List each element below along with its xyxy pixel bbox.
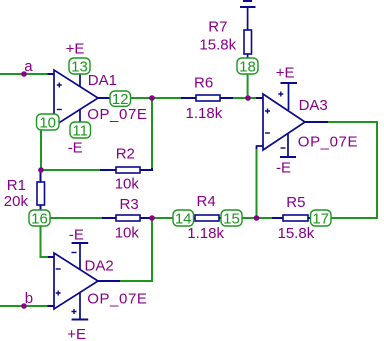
wire green R6 to DA3 + input (233, 97, 256, 99)
label DA1 (88, 72, 117, 89)
wire green from box 16 down to DA2 - input (41, 224, 49, 257)
node box 14 (173, 210, 194, 228)
node b junction dot (21, 303, 27, 309)
power +E bar above DA3 (278, 83, 297, 110)
op-amp DA3 - input stub (257, 146, 264, 149)
svg-text:+E: +E (276, 65, 295, 82)
resistor R4 body (195, 215, 219, 221)
wire green box 18 down to node (247, 71, 249, 98)
wire green vertical from box 10 down to R1 node (40, 128, 42, 170)
node box 13 (69, 58, 90, 76)
op-amp DA1 pin 11 supply lead (79, 110, 81, 124)
label 10k of R3 (115, 225, 140, 242)
resistor R2 left lead blue (100, 169, 116, 171)
node b label (25, 290, 33, 307)
svg-text:-E: -E (276, 160, 291, 177)
op-amp DA1 pin 13 supply lead (79, 70, 81, 87)
node box 12 (110, 91, 131, 108)
label 1.18k of R6 (186, 105, 223, 122)
op-amp U3 DA3 triangle (263, 94, 305, 150)
svg-text:+E: +E (67, 326, 86, 341)
resistor R1 bottom lead blue (40, 205, 42, 212)
resistor R2 right lead blue (140, 168, 152, 170)
label R1 (7, 177, 26, 194)
svg-text:18: 18 (239, 59, 256, 76)
resistor R5 left lead blue (272, 217, 283, 219)
wire a blue lead into DA1 + input (48, 73, 55, 75)
resistor R6 body (196, 95, 220, 101)
label OP_07E of DA3 (298, 133, 358, 150)
svg-text:OP_07E: OP_07E (87, 106, 147, 123)
label 15.8k of R7 (199, 37, 236, 54)
junction dot DA1 output node (149, 95, 155, 101)
label +E below DA2 (67, 326, 86, 341)
svg-text:R5: R5 (286, 194, 305, 211)
wire green box 15 to R5 node (240, 217, 272, 219)
wire green node to box 14 (152, 217, 175, 219)
svg-text:14: 14 (175, 211, 192, 228)
resistor R7 bottom lead blue (247, 54, 249, 60)
svg-text:R1: R1 (7, 177, 26, 194)
node box 15 (221, 210, 242, 228)
power -E bar below DA3 (280, 134, 296, 157)
node box 17 (311, 210, 332, 228)
svg-text:R3: R3 (120, 196, 139, 213)
label 1.18k of R4 (187, 225, 224, 242)
wire blue lead into DA3 + input (256, 97, 263, 99)
svg-text:R4: R4 (197, 193, 216, 210)
resistor R5 body (283, 215, 308, 221)
label DA2 (85, 258, 114, 275)
svg-text:10k: 10k (115, 225, 140, 242)
wire green from box 16 right to R3 (48, 217, 102, 219)
label OP_07E of DA1 (87, 106, 147, 123)
op-amp DA1 - input marker (57, 109, 62, 111)
node box 18 (237, 58, 258, 76)
label -E below DA3 (276, 160, 291, 177)
junction dot R1/R2 node (38, 167, 44, 173)
svg-text:DA1: DA1 (88, 72, 117, 89)
power -E bar above DA2 (72, 243, 89, 270)
op-amp DA1 - input stub (hidden under box 10) (47, 121, 54, 123)
label OP_07E of DA2 (87, 291, 147, 308)
svg-text:OP_07E: OP_07E (298, 133, 358, 150)
svg-text:15.8k: 15.8k (278, 225, 315, 242)
svg-text:-E: -E (69, 227, 84, 244)
wire blue lead into DA2 - input (48, 256, 54, 258)
resistor R7 body (244, 30, 252, 54)
resistor R6 right lead blue (220, 97, 233, 99)
wire b blue lead into DA2 + input (48, 305, 55, 307)
svg-text:1.18k: 1.18k (187, 225, 224, 242)
wire green vertical DA1 output down to R2 (151, 98, 153, 169)
resistor R2 left wire green (41, 169, 100, 171)
resistor R1 body (37, 182, 45, 205)
svg-text:DA2: DA2 (85, 258, 114, 275)
svg-text:1.18k: 1.18k (186, 105, 223, 122)
op-amp DA2 output lead blue (98, 280, 120, 282)
label R6 (194, 75, 213, 92)
wire green output loop: box 17 right, up to DA3 output (328, 122, 377, 218)
resistor R6 left lead blue (181, 97, 196, 99)
label R2 (116, 146, 135, 163)
node box 10 (37, 114, 60, 132)
label -E below DA1 (68, 140, 83, 157)
node a junction dot (21, 71, 27, 77)
resistor R4 leads blue (191, 217, 223, 219)
resistor R2 body (116, 167, 140, 173)
svg-text:12: 12 (112, 91, 129, 108)
resistor R5 right lead blue (308, 217, 312, 219)
svg-text:+E: +E (66, 41, 85, 58)
svg-text:20k: 20k (4, 193, 29, 210)
op-amp DA1 output stub (98, 97, 112, 99)
junction dot DA3 - input node (254, 215, 260, 221)
label +E above DA1 (66, 41, 85, 58)
wire green DA2 output up to R3/R4 node (120, 218, 152, 281)
op-amp DA2 - input marker (56, 268, 61, 270)
svg-text:15: 15 (223, 211, 240, 228)
label 10k of R2 (115, 175, 140, 192)
svg-text:R2: R2 (116, 146, 135, 163)
svg-text:DA3: DA3 (299, 97, 328, 114)
resistor R3 right lead blue (140, 217, 152, 219)
wire from box 12 to node, green (128, 97, 181, 99)
label R4 (197, 193, 216, 210)
svg-text:10k: 10k (115, 175, 140, 192)
resistor R1 top lead blue (40, 170, 42, 182)
resistor R7 top lead blue (247, 7, 249, 30)
op-amp DA3 - input marker (265, 132, 270, 134)
label 20k of R1 (4, 193, 29, 210)
op-amp DA2 + input marker (56, 291, 61, 296)
svg-text:R7: R7 (208, 18, 227, 35)
svg-text:10: 10 (39, 115, 56, 132)
svg-text:13: 13 (71, 59, 88, 76)
label +E above DA3 (276, 65, 295, 82)
junction dot R6/R7/DA3+ node (245, 95, 251, 101)
svg-text:OP_07E: OP_07E (87, 291, 147, 308)
resistor R3 body (116, 215, 140, 221)
node box 11 (70, 122, 91, 140)
power +E bar below DA2 (72, 293, 89, 320)
node box 16 (29, 210, 50, 228)
op-amp DA3 output lead blue (305, 121, 328, 123)
svg-text:-E: -E (68, 140, 83, 157)
svg-text:16: 16 (31, 211, 48, 228)
wire a horizontal green (0, 73, 48, 75)
svg-text:11: 11 (72, 123, 88, 140)
op-amp DA3 + input marker (265, 109, 270, 114)
label -E above DA2 (69, 227, 84, 244)
svg-text:R6: R6 (194, 75, 213, 92)
node a label (24, 58, 33, 75)
power +E bar symbol above R7 (240, 1, 256, 7)
op-amp DA1 + input marker (57, 83, 62, 88)
svg-text:17: 17 (312, 211, 329, 228)
label R3 (120, 196, 139, 213)
svg-text:15.8k: 15.8k (199, 37, 236, 54)
label R5 (286, 194, 305, 211)
label 15.8k of R5 (278, 225, 315, 242)
label DA3 (299, 97, 328, 114)
op-amp U2 DA2 triangle (54, 253, 98, 309)
label R7 (208, 18, 227, 35)
resistor R3 left lead blue (102, 217, 116, 219)
op-amp U1 DA1 triangle (54, 70, 98, 126)
junction dot R3/R4/DA2out node (149, 215, 155, 221)
wire green DA3 - input vertical (256, 147, 258, 218)
wire b horizontal green (0, 305, 48, 307)
